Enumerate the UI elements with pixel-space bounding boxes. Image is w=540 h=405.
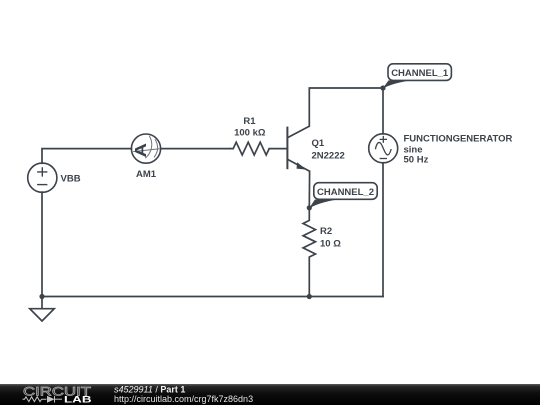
svg-text:2N2222: 2N2222 — [312, 150, 345, 161]
wire VBB bottom down — [41, 192, 43, 296]
flag CHANNEL_1 — [383, 80, 411, 88]
flag CHANNEL_2 — [309, 200, 337, 209]
svg-text:Q1: Q1 — [312, 138, 325, 149]
svg-text:VBB: VBB — [61, 174, 81, 185]
svg-text:A: A — [133, 142, 150, 157]
wire function generator down to bottom rail — [382, 163, 384, 297]
function generator — [369, 134, 398, 163]
ground — [30, 297, 54, 322]
wire R1 to Q1 base — [269, 148, 287, 150]
wire node down to function generator — [382, 88, 384, 134]
svg-text:100 kΩ: 100 kΩ — [234, 128, 266, 139]
resistor R2 — [303, 208, 315, 297]
svg-text:LAB: LAB — [64, 394, 92, 405]
svg-text:http://circuitlab.com/crg7fk7z: http://circuitlab.com/crg7fk7z86dn3 — [114, 394, 253, 404]
transistor Q1 — [287, 126, 309, 171]
junction node top right — [380, 85, 385, 90]
svg-text:AM1: AM1 — [136, 169, 157, 180]
junction node bottom R2 — [307, 294, 312, 299]
voltage source VBB — [28, 163, 57, 192]
wire bottom rail — [42, 296, 383, 298]
ammeter AM1 — [131, 134, 160, 163]
wire Q1 emitter down to CHANNEL_2 node — [308, 171, 310, 208]
wire Q1 collector up and to node — [309, 88, 383, 126]
svg-text:CHANNEL_2: CHANNEL_2 — [317, 187, 374, 198]
svg-text:50 Hz: 50 Hz — [404, 155, 429, 166]
svg-text:R2: R2 — [320, 226, 332, 237]
wire AM1 to R1 — [161, 148, 230, 150]
svg-text:10 Ω: 10 Ω — [320, 239, 341, 250]
svg-text:R1: R1 — [243, 116, 256, 127]
junction node CHANNEL_2 — [307, 205, 312, 210]
junction node bottom left — [39, 294, 44, 299]
svg-text:FUNCTIONGENERATOR: FUNCTIONGENERATOR — [404, 133, 513, 144]
logo resistor-diode — [23, 396, 63, 403]
resistor R1 — [230, 142, 270, 155]
wire VBB top to rail — [42, 149, 131, 164]
svg-text:CHANNEL_1: CHANNEL_1 — [391, 68, 449, 79]
